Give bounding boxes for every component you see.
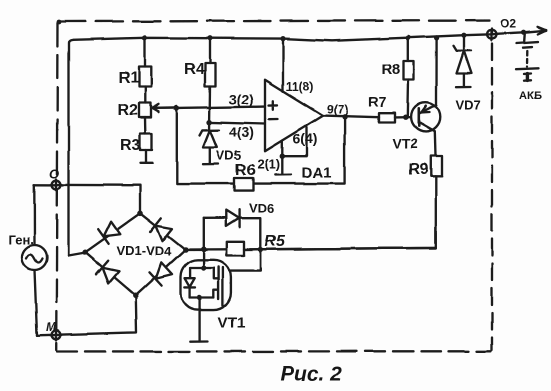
svg-text:R3: R3	[120, 137, 141, 154]
svg-text:Ген.: Ген.	[9, 232, 34, 247]
svg-text:VD5: VD5	[216, 148, 241, 163]
svg-text:R6: R6	[235, 162, 256, 179]
svg-text:VD6: VD6	[249, 201, 274, 216]
svg-text:O: O	[49, 166, 59, 181]
svg-text:R4: R4	[184, 61, 205, 78]
svg-text:6(4): 6(4)	[293, 131, 318, 147]
svg-text:2(1): 2(1)	[257, 157, 280, 172]
svg-text:9(7): 9(7)	[327, 103, 348, 117]
svg-text:R5: R5	[265, 233, 287, 250]
svg-text:АКБ: АКБ	[519, 90, 542, 102]
svg-text:R8: R8	[381, 61, 400, 78]
svg-text:R9: R9	[409, 161, 430, 178]
svg-text:VT2: VT2	[392, 136, 418, 152]
svg-text:M: M	[46, 320, 57, 334]
svg-text:Рис. 2: Рис. 2	[280, 363, 342, 386]
svg-text:VD7: VD7	[456, 98, 481, 113]
svg-text:VT1: VT1	[218, 315, 246, 332]
svg-text:3(2): 3(2)	[229, 91, 254, 107]
svg-text:R7: R7	[369, 94, 387, 110]
svg-text:O2: O2	[500, 17, 516, 31]
svg-text:R2: R2	[118, 102, 139, 119]
svg-text:R1: R1	[119, 70, 140, 87]
svg-text:4(3): 4(3)	[229, 124, 254, 140]
svg-text:VD1-VD4: VD1-VD4	[117, 244, 173, 259]
svg-text:DA1: DA1	[302, 165, 332, 182]
svg-text:11(8): 11(8)	[286, 80, 313, 94]
